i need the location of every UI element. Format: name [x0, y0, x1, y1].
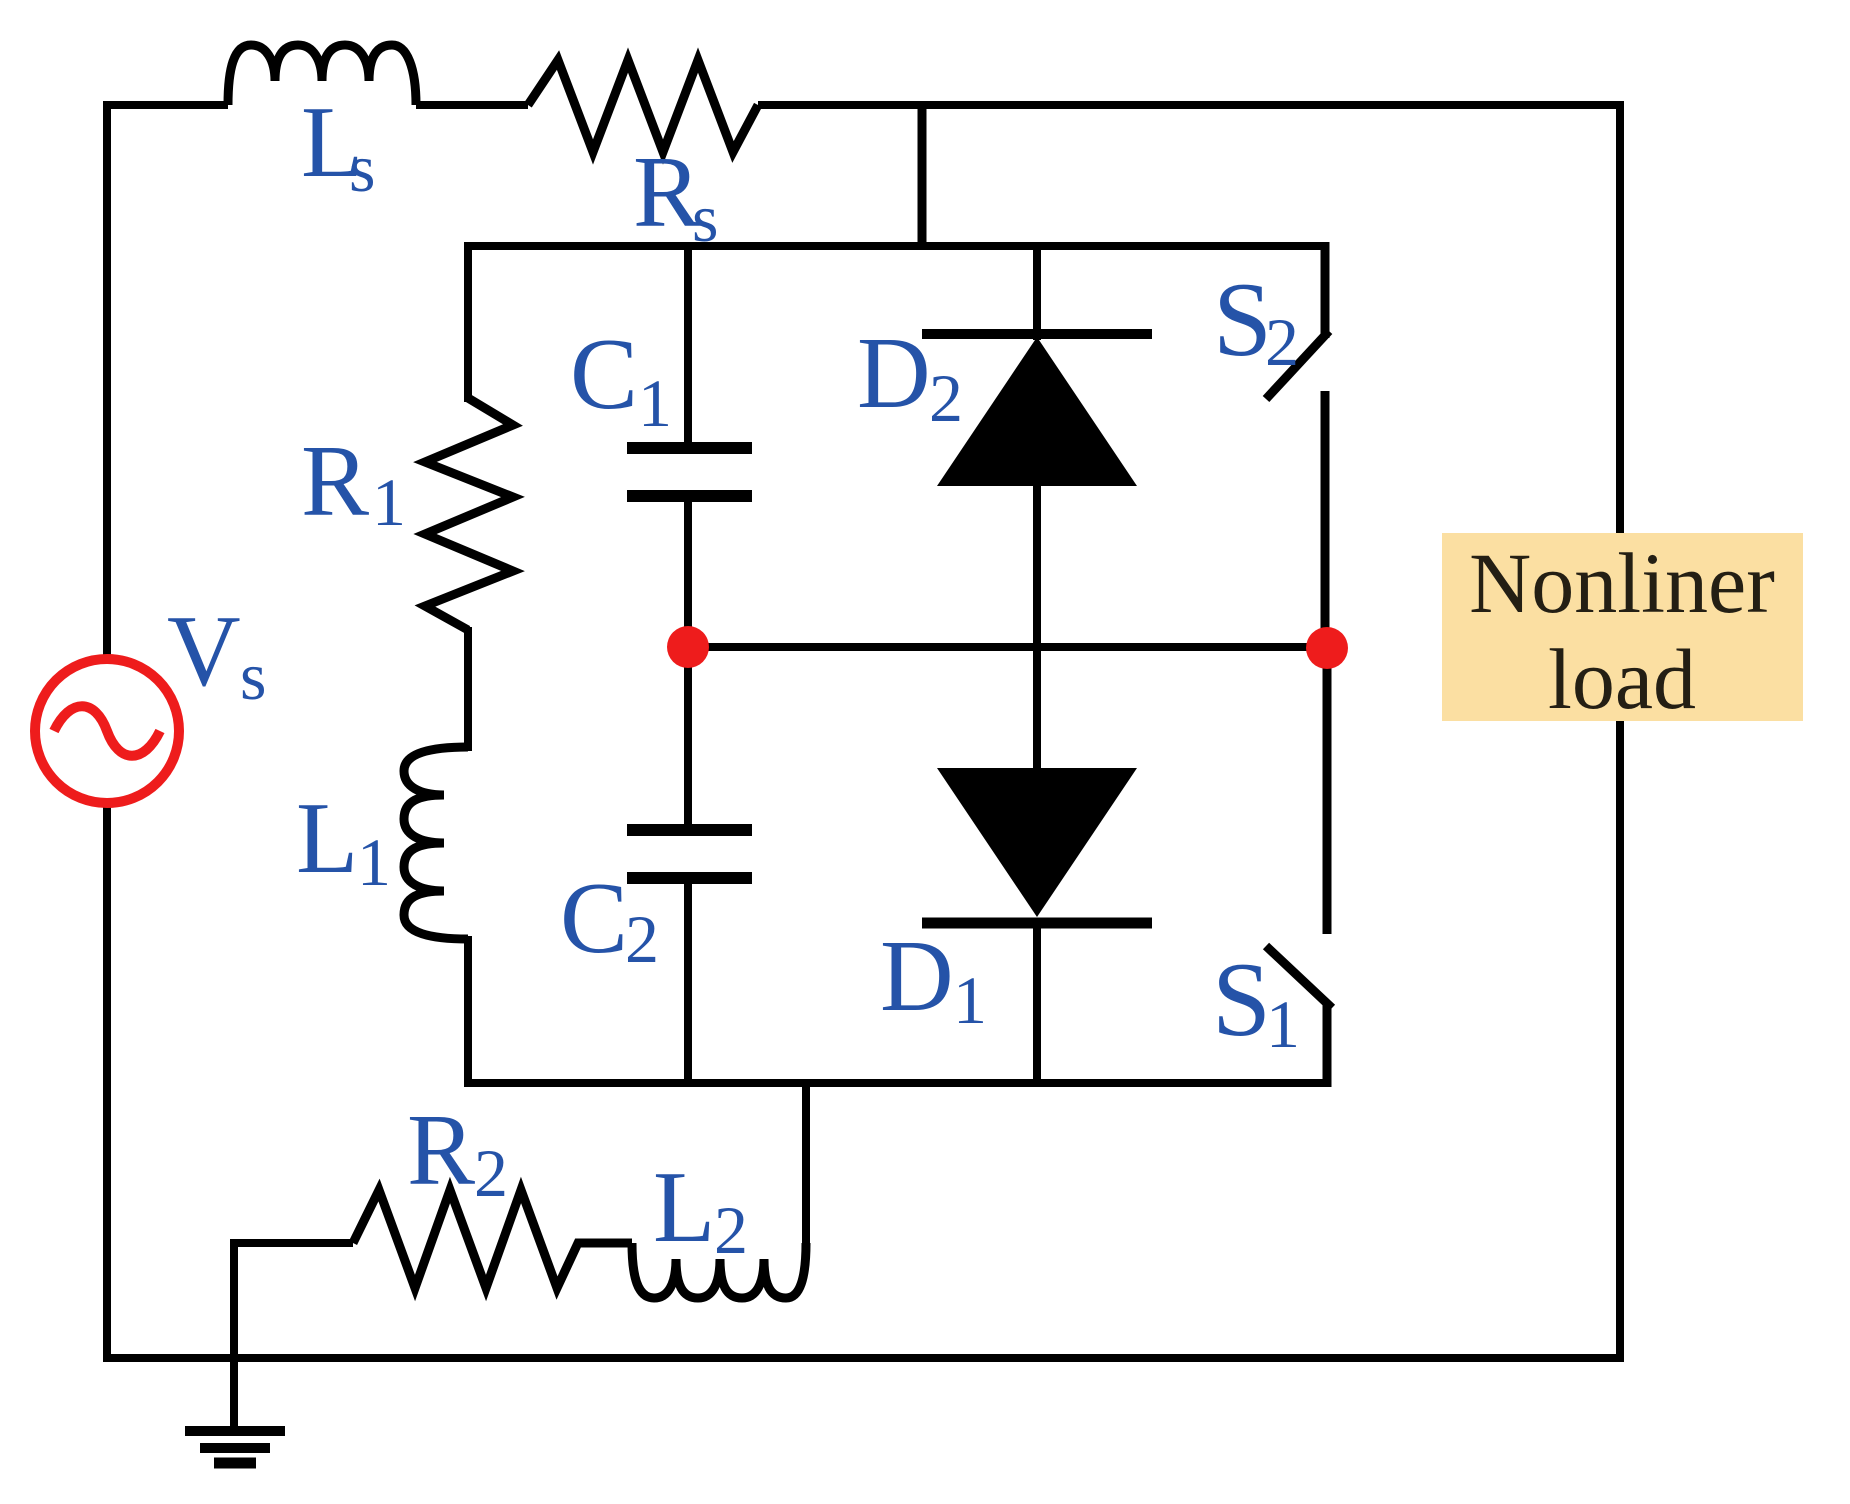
- wire Ls to Rs: [416, 101, 528, 109]
- svg-text:s: s: [692, 180, 718, 256]
- wire junction T from top wire down to bridge box: [918, 105, 927, 246]
- ground: [185, 1431, 285, 1463]
- label S1: [1212, 941, 1300, 1062]
- svg-text:s: s: [349, 130, 375, 206]
- svg-text:1: 1: [638, 365, 672, 441]
- svg-text:2: 2: [1265, 304, 1299, 380]
- label L1: [296, 782, 391, 900]
- svg-text:S: S: [1213, 261, 1272, 378]
- svg-text:2: 2: [929, 360, 963, 436]
- resistor R1: [425, 398, 513, 630]
- label C2: [560, 862, 659, 977]
- wire D2 to middle wire: [1033, 485, 1041, 651]
- label Vs: [167, 595, 266, 714]
- inductor L2: [632, 1243, 806, 1298]
- diode D2 cathode bar: [922, 329, 1152, 339]
- svg-text:load: load: [1548, 631, 1696, 727]
- svg-text:s: s: [240, 638, 266, 714]
- wire L1 to box bottom: [464, 936, 472, 1087]
- wire C1 upper lead: [684, 246, 692, 444]
- inductor L1: [404, 747, 468, 939]
- resistor Rs: [528, 60, 758, 152]
- wire middle (node A to node B): [688, 643, 1327, 651]
- label L2: [653, 1151, 748, 1268]
- svg-text:C: C: [570, 318, 638, 431]
- wire Rs to top-right corner: [758, 101, 1624, 109]
- wire middle to D1: [1033, 647, 1041, 770]
- wire outer bottom: [103, 1354, 1624, 1362]
- diode D1 cathode bar: [922, 918, 1152, 929]
- wire node A to C2: [684, 647, 692, 826]
- wire R1 to L1: [464, 627, 472, 751]
- svg-text:2: 2: [474, 1135, 508, 1211]
- svg-text:R: R: [301, 425, 369, 538]
- svg-text:R: R: [407, 1094, 475, 1207]
- wire C2 lower lead: [684, 880, 692, 1083]
- label R2: [407, 1094, 508, 1211]
- svg-text:V: V: [167, 595, 241, 708]
- svg-text:2: 2: [714, 1192, 748, 1268]
- label D1: [880, 920, 987, 1038]
- label C1: [570, 318, 672, 441]
- switch S1 lower lead: [1323, 1005, 1332, 1087]
- switch S2 lower lead to node B: [1321, 391, 1330, 650]
- capacitor C2: [627, 830, 752, 878]
- source Vs: [35, 659, 179, 803]
- wire R2 left lead: [234, 1243, 353, 1431]
- svg-text:2: 2: [625, 901, 659, 977]
- switch S2 upper lead: [1321, 242, 1330, 338]
- diode D1: [937, 768, 1137, 917]
- capacitor C1: [627, 448, 752, 496]
- wire outer top-left segment: [103, 101, 228, 109]
- wire outer left: [103, 101, 111, 1358]
- wire inner box top: [464, 242, 1329, 250]
- node B: [1306, 627, 1348, 669]
- switch S2 blade: [1266, 331, 1329, 399]
- svg-text:1: 1: [372, 464, 406, 540]
- inductor Ls: [228, 45, 416, 105]
- label R1: [301, 425, 406, 540]
- svg-text:D: D: [880, 920, 954, 1033]
- label Ls: [301, 86, 375, 206]
- svg-text:1: 1: [357, 824, 391, 900]
- label D2: [857, 317, 963, 436]
- wire C1 to node A: [684, 498, 692, 650]
- svg-text:L: L: [653, 1151, 715, 1264]
- wire inner box bottom: [464, 1079, 1331, 1087]
- label Rs: [633, 136, 718, 256]
- switch S1 blade: [1266, 946, 1332, 1008]
- label S2: [1213, 261, 1299, 380]
- wire D2 upper lead: [1033, 246, 1041, 340]
- nonlinear load box: [1442, 533, 1803, 727]
- svg-text:1: 1: [953, 962, 987, 1038]
- svg-text:D: D: [857, 317, 931, 430]
- svg-text:R: R: [633, 136, 701, 249]
- wire D1 lower lead: [1033, 920, 1041, 1083]
- svg-text:L: L: [296, 782, 358, 895]
- svg-text:S: S: [1212, 941, 1271, 1058]
- diode D2: [937, 337, 1137, 486]
- switch S1 upper lead from node B: [1323, 645, 1332, 934]
- resistor R2: [353, 1190, 632, 1288]
- node A: [667, 626, 709, 668]
- svg-text:C: C: [560, 862, 628, 975]
- wire box bottom to L2: [802, 1083, 810, 1243]
- wire outer right: [1616, 101, 1624, 1358]
- svg-text:Nonliner: Nonliner: [1469, 535, 1775, 631]
- wire left branch upper lead: [464, 246, 472, 402]
- svg-text:1: 1: [1266, 986, 1300, 1062]
